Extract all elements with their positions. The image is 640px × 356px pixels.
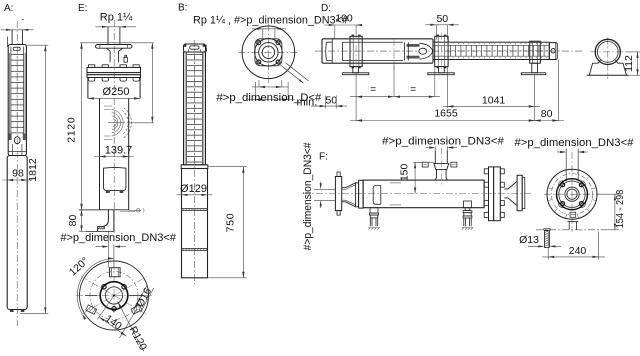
svg-text:2120: 2120 (65, 117, 77, 143)
view F branch centerline (440, 148, 442, 187)
svg-text:Ø250: Ø250 (103, 86, 130, 98)
flange view tilted centerlines (81, 277, 147, 315)
view A motor feet (10, 309, 14, 312)
view E right dimension line (151, 43, 153, 123)
svg-text:#>p_dimension_DN3<#: #>p_dimension_DN3<# (302, 142, 314, 251)
view E vent plug (124, 57, 127, 62)
svg-text:F:: F: (319, 152, 328, 163)
view B pump body top cap (184, 44, 206, 52)
dimension R120 leader (118, 302, 144, 352)
top view thread dimension (252, 28, 286, 30)
view F support 1 (370, 208, 378, 213)
svg-text:Ø13: Ø13 (519, 234, 539, 246)
view E base line (86, 230, 114, 232)
view E cable outlet extension (127, 122, 154, 124)
svg-text:E:: E: (78, 3, 87, 14)
dimension 112 line (637, 52, 639, 75)
view F inlet dimension arrows (314, 188, 336, 190)
view E chamber body (87, 78, 89, 99)
flange view vertical centerline (113, 263, 115, 314)
F end view DN dimension (557, 151, 565, 153)
dimension 1041 line (443, 105, 540, 107)
view F shroud end plate (359, 180, 364, 208)
svg-text:=: = (410, 84, 416, 95)
svg-text:#>p_dimension_DN3<#: #>p_dimension_DN3<# (382, 136, 505, 148)
dimension 240 extensions (547, 232, 549, 260)
dimension O16 leader (134, 285, 147, 309)
view D motor inner lines (342, 41, 403, 43)
flange view center dot (113, 294, 115, 296)
view E head bolts bottom row (88, 78, 94, 82)
svg-text:80: 80 (67, 215, 79, 227)
end view base line (587, 74, 629, 76)
view E discharge flange (96, 45, 132, 49)
view E head bolts top row (88, 65, 94, 68)
dimension 98 line (2, 179, 32, 181)
svg-text:100: 100 (335, 13, 353, 25)
view E discharge pipe (107, 27, 109, 45)
dimension 154-298 extensions (598, 193, 620, 195)
flange view bold circle (100, 282, 128, 310)
dimension 50 well lines (325, 96, 327, 109)
ground line dash dot (536, 229, 601, 231)
view D foot 2 (439, 67, 445, 73)
top view flange circle (255, 39, 283, 67)
svg-text:50: 50 (325, 94, 337, 106)
view A coupling blocks (9, 134, 12, 141)
end view outer circle (595, 39, 620, 64)
view A screen grid (11, 54, 24, 56)
F end view bolt holes (579, 183, 583, 187)
view E head plate (87, 67, 141, 72)
top view square housing (255, 39, 282, 66)
view E cable coil (104, 106, 131, 139)
end view inner circle (597, 42, 618, 63)
flange view pad chords (85, 295, 97, 297)
view E cable clamp symbol (129, 209, 137, 211)
flange view inner circle (105, 287, 122, 304)
view D clamp 2 centerline (440, 33, 442, 71)
svg-text:#>p_dimension_DN3<#: #>p_dimension_DN3<# (60, 232, 176, 244)
view F pump nose inside (373, 185, 381, 204)
view E top extension line (80, 42, 154, 44)
view F outlet flange plates (489, 167, 494, 221)
view F inlet ring (356, 183, 359, 207)
view D foot 1 (353, 67, 359, 73)
svg-text:112: 112 (623, 55, 635, 72)
view F outlet flange bolts right (500, 169, 504, 174)
view F inlet pipe (342, 187, 346, 189)
dimension 2120/80 line (81, 43, 83, 210)
svg-text:50: 50 (436, 13, 448, 25)
dimension 80 line (535, 120, 564, 122)
dimension 100 lines (324, 24, 362, 26)
view D motor end cap (331, 39, 333, 63)
F end view flange circle (559, 181, 585, 207)
top view neck circle (259, 43, 278, 62)
view A centerline (16, 21, 18, 326)
flange view horizontal centerline (76, 295, 152, 297)
view D equal spacing dimension (355, 75, 357, 121)
view A shell inner lines (10, 47, 12, 134)
svg-text:min.: min. (297, 96, 318, 108)
view F branch side lugs (422, 162, 428, 167)
view F inlet flange (335, 177, 341, 211)
F end view pipe lines (565, 149, 567, 182)
F end view bolt circle dashed (551, 174, 592, 215)
view F outlet cone (504, 181, 517, 205)
view F inner step lines (390, 182, 401, 184)
dimension 80 extension line (557, 60, 559, 122)
view E DN leader lines (107, 231, 109, 267)
svg-text:750: 750 (224, 213, 236, 233)
svg-text:D:: D: (321, 3, 331, 14)
view D centerline (315, 50, 583, 52)
end view saddle (589, 60, 626, 75)
svg-text:1041: 1041 (482, 95, 506, 107)
view A top slot (13, 47, 20, 50)
O13 bolt hatched (544, 229, 550, 231)
view F inlet cone (346, 183, 356, 188)
svg-text:B:: B: (178, 3, 187, 14)
svg-text:Ø129: Ø129 (180, 183, 207, 195)
dimension 750 line (242, 167, 244, 278)
flange view bolt holes (102, 285, 106, 289)
F end view outer circle (547, 169, 597, 219)
flange view outer circle (80, 261, 149, 330)
view F branch pipe (434, 150, 436, 163)
view E motor stool (104, 167, 126, 190)
view A discharge pipe (11, 30, 13, 45)
view E head flange (87, 75, 141, 78)
flange view bolt circle dashed (90, 272, 138, 320)
view E centerline (113, 20, 115, 233)
dimension 112 extensions (627, 51, 640, 53)
view D clamp 1 (350, 36, 362, 66)
view B screen outer (184, 52, 206, 165)
view A centerline top tick (22, 19, 24, 21)
view A cable guard line (6, 37, 8, 48)
view B screen bottom ring (181, 165, 208, 169)
top view outer circle (242, 26, 295, 79)
dimension 154-298 line (614, 194, 616, 230)
view F branch collar (434, 163, 449, 169)
end view centerlines (590, 51, 627, 53)
view E column bottom line (79, 209, 129, 211)
view F support 2 (464, 201, 472, 208)
view A motor body (7, 156, 27, 310)
view D screen section (433, 42, 549, 59)
flange view right foot pad hatched (131, 305, 142, 314)
dimension 120deg arc (77, 259, 114, 314)
dimension 139.7 line (94, 156, 134, 158)
view E column (99, 98, 101, 209)
F end view centerlines (544, 193, 601, 195)
view A coupling lines (11, 144, 13, 156)
view F outlet flange bolts left (484, 169, 488, 174)
svg-text:98: 98 (12, 168, 24, 180)
F end view support table (567, 221, 578, 223)
dimension O13 leader (528, 245, 543, 247)
dimension 1041 extension lines (446, 67, 448, 108)
view D foot 3 (532, 63, 538, 73)
view F outlet end flange (517, 175, 522, 210)
view E flange neck (107, 48, 123, 62)
view D clamp 2 (435, 36, 448, 66)
view D lifting point centerline (393, 39, 395, 70)
svg-text:=: = (370, 84, 376, 95)
top view leader to bolt hole (281, 65, 304, 83)
F end view bore circles (565, 187, 579, 201)
view D screen grid (433, 44, 549, 46)
dimension 750 extension lines (208, 166, 247, 168)
view F centerline (303, 193, 531, 195)
svg-text:150: 150 (399, 163, 411, 181)
view A top connection dimension (1, 29, 34, 31)
view E foot pad hatched (98, 227, 105, 229)
F end view radial ticks (592, 200, 596, 201)
dimension 240 line (542, 256, 605, 258)
svg-text:A:: A: (4, 3, 13, 14)
dimension 140 extension lines (97, 296, 114, 320)
dimension 1812 extension lines (27, 44, 49, 46)
view D clamp 3 (530, 41, 541, 63)
top view bolt holes (276, 41, 280, 45)
dimension O250 line (88, 97, 140, 99)
dimension 1655 line (350, 120, 540, 122)
dimension 150 line (413, 161, 434, 163)
view A pump body (screen section) (8, 45, 26, 156)
view E head gasket (87, 73, 141, 75)
dimension 50 clamp lines (425, 24, 459, 26)
svg-text:#>p_dimension_DN3<#: #>p_dimension_DN3<# (515, 137, 635, 149)
top view bore circle (262, 46, 274, 58)
dimension 1812 line (44, 45, 46, 313)
svg-text:139.7: 139.7 (105, 145, 133, 157)
top view centerlines (238, 51, 298, 53)
top view outer dimension (254, 82, 256, 100)
view D motor body (322, 39, 433, 63)
top view inner dimension (258, 80, 260, 87)
svg-text:154 - 298: 154 - 298 (614, 190, 626, 229)
flange view left foot pad hatched (86, 305, 97, 314)
view D screen end cap (549, 43, 557, 60)
view F branch DN dimension (434, 146, 436, 150)
F end view bold circle (557, 179, 588, 210)
dimension 140 line (99, 317, 126, 336)
view D coupling (407, 44, 420, 47)
svg-text:1812: 1812 (27, 158, 39, 182)
F end view square plate corners (559, 181, 564, 186)
view B motor body (182, 169, 208, 278)
view B screen grid (186, 52, 188, 165)
view E thread dimension (95, 26, 136, 28)
view D clamp 1 centerline (355, 33, 357, 75)
flange view top pad (110, 268, 121, 277)
svg-text:80: 80 (541, 108, 553, 120)
view B cable guard pin (205, 45, 207, 52)
dimension O129 line (177, 194, 213, 196)
view F shroud body (363, 180, 484, 208)
svg-text:1655: 1655 (434, 107, 458, 119)
view F branch flare (435, 169, 448, 180)
view A cable oval (14, 137, 20, 144)
view B centerline (194, 40, 196, 284)
view B motor joint rings (182, 208, 208, 210)
svg-text:Rp 1¼: Rp 1¼ (100, 12, 133, 24)
view E foot elbow (98, 210, 114, 232)
svg-text:240: 240 (569, 245, 587, 257)
